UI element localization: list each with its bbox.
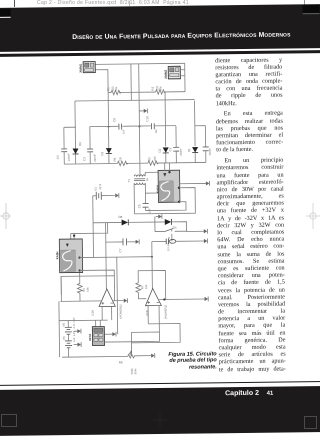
- multimeter XMM1: [79, 62, 96, 73]
- print info line top: [37, 0, 189, 6]
- connector arrow node A: [156, 216, 158, 218]
- diode D8: [122, 219, 129, 225]
- junction dots on rail: [138, 125, 140, 127]
- T1 right top to box: [145, 172, 158, 176]
- fuse F1: [166, 239, 168, 245]
- capacitor C2: [173, 147, 179, 151]
- branch1: D6 wire: [74, 101, 77, 164]
- diode D2: [163, 147, 169, 153]
- box top pins from bus: [165, 163, 170, 170]
- IC U3 (PWM controller KA1H): [155, 170, 180, 202]
- vertical from fuse line down to U1B: [151, 242, 154, 289]
- capacitor C9: [119, 124, 122, 130]
- wire: XMM2 right vertical: [184, 63, 186, 91]
- wire: XMM1 bottom pin right then down: [95, 70, 108, 127]
- branch4: C1 leg via jog: [195, 126, 206, 163]
- branch3: D2 leg from bus1: [164, 92, 167, 163]
- capacitor C10: [151, 123, 154, 129]
- potentiometer R8 500k: [62, 355, 128, 358]
- header left small box white underline: [0, 8, 11, 16]
- multimeter XMM2: [164, 66, 185, 79]
- XFG1 bottom wire and loop: [130, 332, 132, 355]
- bottom bus y=163: [64, 163, 117, 166]
- corner print marks in footer: [1, 414, 17, 427]
- figure caption: [168, 351, 217, 370]
- top tick marks: [14, 0, 15, 7]
- diode D6: [72, 148, 78, 154]
- wire: feedback riser: [116, 257, 119, 334]
- capacitor C1: [203, 147, 209, 151]
- capacitor C7: [106, 241, 136, 243]
- branch2: D3 wire: [108, 126, 110, 163]
- switch J1: [165, 228, 174, 231]
- mark bottom center: [153, 413, 167, 427]
- resistor R1: [111, 90, 121, 95]
- U1B opamp (points up): [145, 288, 161, 305]
- bottom black box: [0, 386, 320, 436]
- supply vertical to U1A: [105, 223, 108, 289]
- U1B feedback: [138, 270, 166, 299]
- U1A opamp (points up): [99, 289, 115, 307]
- U1B output: [159, 298, 204, 301]
- wire: 8V sense line: [152, 240, 166, 242]
- top rail of lower-left section: [59, 319, 108, 322]
- optocoupler U2 (KA2H): [55, 239, 83, 273]
- thin black line under header: [0, 50, 320, 56]
- U1A out to U1B: [112, 300, 123, 302]
- branch1: C6 wire: [63, 127, 65, 164]
- R7: [136, 283, 141, 293]
- branch3: C2 leg from rail corner: [175, 126, 177, 163]
- function generator XFG1: [88, 326, 105, 345]
- resistor R3: [148, 161, 159, 166]
- capacitor C6: [61, 149, 67, 152]
- crosshair right: [306, 203, 320, 229]
- wire: U1B pins down to loop: [158, 306, 160, 332]
- crosshair left: [0, 203, 11, 229]
- output arrow +32V rail: [204, 229, 208, 234]
- connector arrow on center vertical: [139, 110, 144, 112]
- header black band: [0, 4, 320, 51]
- bus1 y=92 with R1 R2: [108, 92, 111, 94]
- center vertical to T1: [139, 64, 140, 175]
- wire: bus2 y=100: [75, 100, 195, 101]
- wire: opto output 1: [78, 256, 80, 258]
- capacitor C5: [143, 203, 149, 207]
- title: [0, 31, 318, 42]
- wire: XMM1 top output to right: [95, 63, 184, 64]
- battery V6: [67, 334, 69, 341]
- branch rail y=126.2 with inline caps C9 C10: [64, 126, 176, 128]
- branch2: C3 wire: [89, 127, 91, 164]
- source V1 32V: [93, 195, 115, 197]
- R6: [79, 273, 81, 283]
- left drop from bus to opto: [71, 223, 108, 234]
- bottom thin line: [0, 381, 320, 387]
- diode D1: [192, 147, 198, 153]
- T1 right bottom down to C5: [145, 183, 158, 193]
- bus y=222 with D8 and D4: [93, 221, 121, 223]
- U1A pins from base down: [101, 306, 103, 320]
- diode D4: [165, 219, 172, 225]
- resistor R5: [117, 161, 128, 166]
- transformer T1: [134, 175, 145, 185]
- left rail down: [60, 276, 62, 295]
- header right small box: [303, 5, 320, 14]
- wire: opto output 2: [79, 269, 81, 271]
- resistor R2: [156, 90, 166, 95]
- T1 left bottom down: [133, 183, 135, 214]
- branch4: D1 leg from bus2 corner: [194, 101, 197, 163]
- U1A feedback: [61, 276, 114, 302]
- capacitor C3: [87, 149, 93, 152]
- battery V5: [67, 321, 69, 328]
- box right output with arrow: [180, 182, 206, 184]
- diode D3: [106, 148, 112, 154]
- frame below box: nested wrap wires: [134, 188, 195, 214]
